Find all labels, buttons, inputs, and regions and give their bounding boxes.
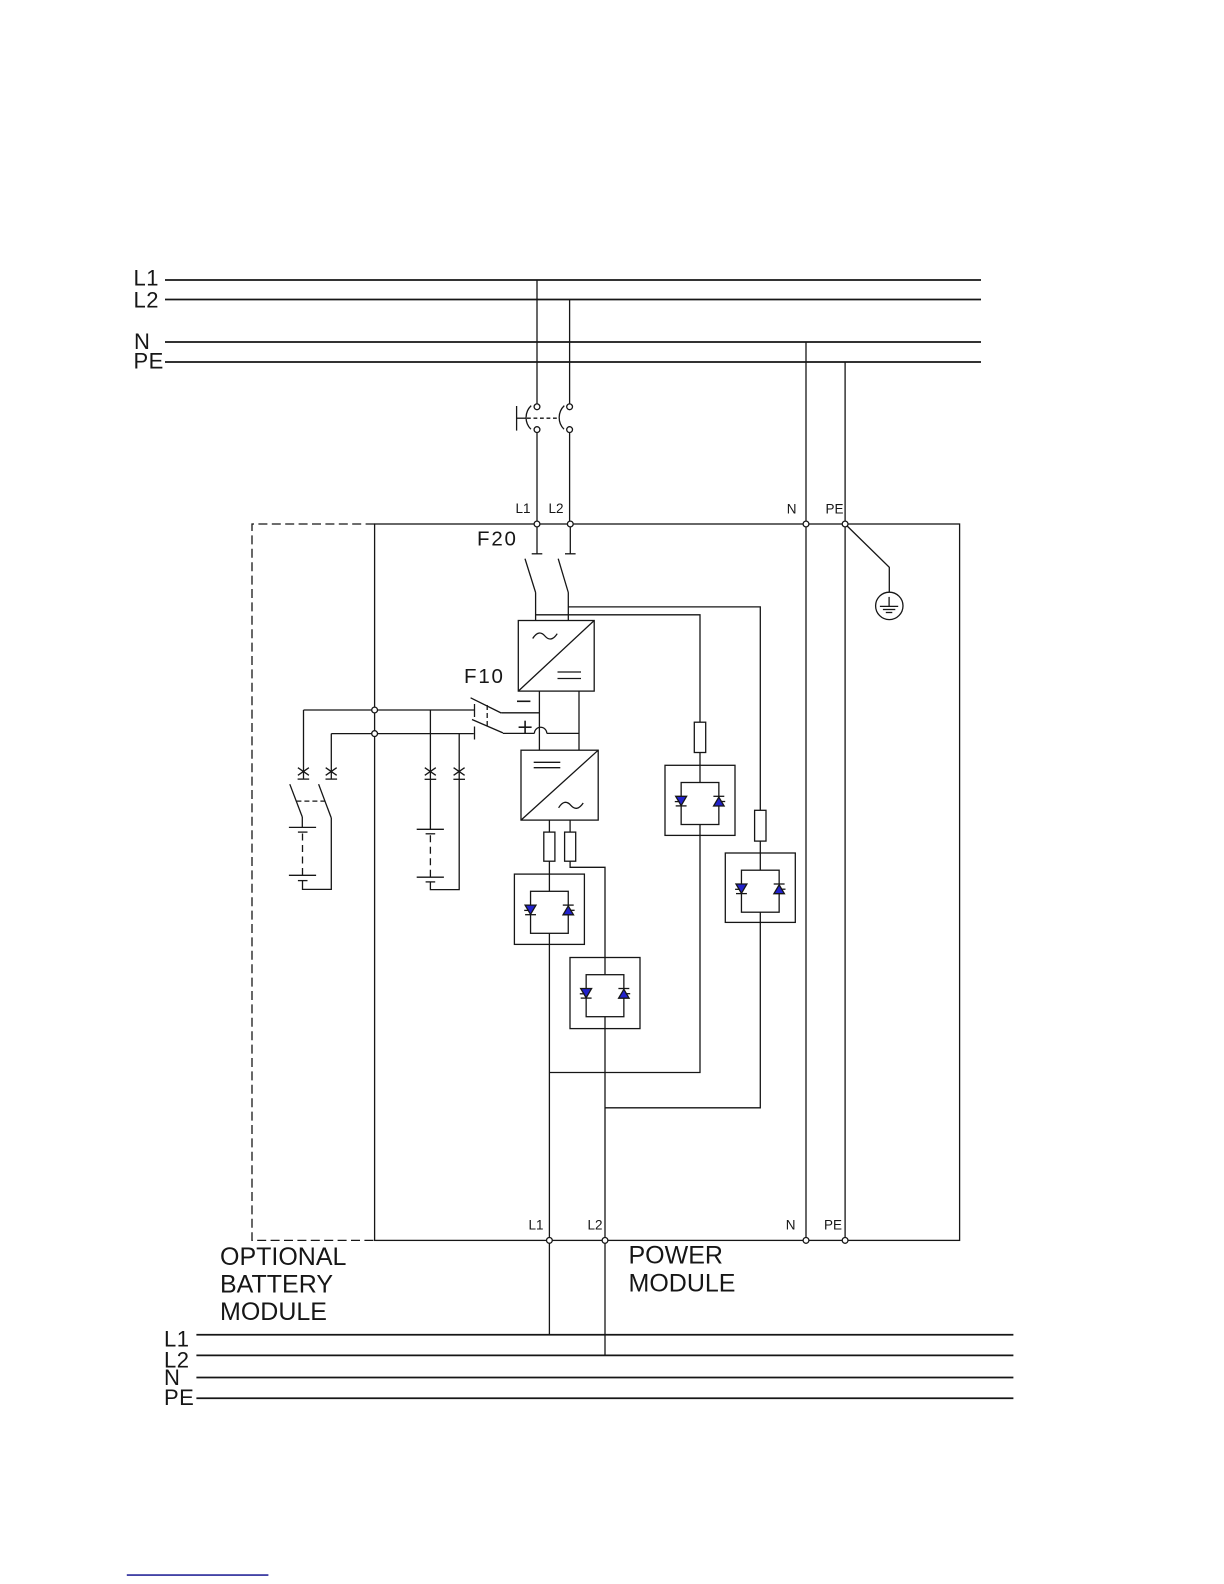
wire input bus L1: [165, 279, 981, 281]
pin label N (module bottom): [786, 1218, 796, 1233]
wire L1 drop to input switch: [536, 280, 538, 404]
wire N through module: [805, 342, 807, 1240]
battery B1 lower cell: [289, 875, 316, 880]
battery B2 (internal): [417, 829, 444, 834]
node label PE (input bus): [134, 349, 164, 374]
input switch Q1 pole 2 contacts: [567, 404, 573, 433]
pin label L1 (module top): [515, 501, 530, 516]
node L1 (module bottom terminal): [547, 1238, 553, 1244]
static switch S2 (inverter L2): [570, 958, 640, 1029]
wire DC plus bus: [331, 733, 474, 735]
svg-text:L2: L2: [548, 501, 563, 516]
label OPTIONAL BATTERY MODULE: [220, 1243, 347, 1326]
pin label PE (module top): [825, 502, 843, 517]
node L2 (module top terminal): [567, 521, 573, 527]
battery switch blade 1: [290, 784, 303, 817]
static switch S3 (bypass L1): [665, 765, 735, 835]
wire bypass branch from L1 pole: [536, 615, 700, 722]
footer link underline: [127, 1574, 269, 1576]
thyristor S3 left (down): [675, 796, 687, 806]
node minus bus battery tap: [372, 707, 378, 713]
wire input bus PE: [165, 361, 981, 363]
svg-text:N: N: [787, 502, 797, 517]
pin label N (module top): [787, 502, 797, 517]
wire battery B1 return: [303, 818, 332, 889]
node label PE (output bus): [164, 1385, 194, 1410]
wire minus bus to internal battery: [429, 710, 431, 829]
wire fuse to static switch S4: [759, 841, 761, 853]
static switch S4 (bypass L2): [725, 853, 795, 922]
optional battery module enclosure (dashed): [252, 524, 375, 1240]
disconnect F10 pole 2 (plus): [472, 720, 503, 740]
disconnect F10 pole 1 (minus): [471, 698, 540, 717]
wire F20 pole 1 to rectifier: [535, 593, 537, 621]
input switch Q1 pole 1 arc: [526, 406, 531, 430]
fuse-switch F20 pole 1: [525, 524, 542, 593]
thyristor S2 left (down): [580, 989, 592, 999]
node label N (output bus): [164, 1365, 180, 1390]
svg-text:POWER: POWER: [629, 1242, 723, 1270]
node plus bus battery tap: [372, 731, 378, 737]
static switch S1 (inverter L1): [514, 874, 584, 944]
label F20: [477, 528, 518, 551]
wire static switch S1 to output L1: [548, 944, 550, 1240]
inverter U2 (DC/AC converter): [521, 750, 598, 820]
node N (module bottom terminal): [803, 1238, 809, 1244]
node PE (module top terminal): [842, 521, 848, 527]
label plus: [519, 721, 532, 734]
wire input bus N: [165, 341, 981, 343]
svg-text:L2: L2: [134, 288, 159, 313]
fuse link X (internal battery plus): [453, 768, 465, 780]
wire plus bus to left battery: [330, 734, 332, 780]
node label L2 (output bus): [164, 1347, 189, 1372]
svg-text:PE: PE: [824, 1218, 842, 1233]
svg-text:F20: F20: [477, 528, 518, 551]
fuse bypass L1: [694, 722, 705, 752]
wire fuse to static switch S3: [699, 753, 701, 766]
node L1 (module top terminal): [534, 521, 540, 527]
wire output bus L2: [196, 1354, 1013, 1356]
node label L2 (input bus): [134, 288, 159, 313]
node L2 (module bottom terminal): [602, 1238, 608, 1244]
thyristor S1 left (down): [524, 905, 536, 915]
thyristor S4 right (up): [774, 884, 786, 894]
wire static switch S2 to output L2: [604, 1029, 606, 1241]
svg-text:N: N: [786, 1218, 796, 1233]
power module enclosure: [375, 524, 960, 1240]
pin label L2 (module bottom): [587, 1218, 602, 1233]
wire inverter output L2: [569, 820, 571, 832]
wire output L2 drop: [604, 1240, 606, 1355]
input switch Q1 mechanical link (dashed): [527, 417, 560, 419]
wire rectifier DC plus output: [578, 691, 580, 750]
wire PE to earth: [845, 524, 889, 592]
fuse link X (battery plus): [326, 768, 338, 779]
node PE (module bottom terminal): [842, 1238, 848, 1244]
wire output L1 drop: [548, 1240, 550, 1334]
node N (module top terminal): [803, 521, 809, 527]
fuse-switch F20 pole 2: [558, 524, 575, 593]
node label L1 (input bus): [134, 266, 159, 291]
fuse bypass L2: [755, 810, 766, 841]
wire bypass branch from L2 pole: [568, 607, 760, 810]
svg-text:L2: L2: [587, 1218, 602, 1233]
label minus: [517, 700, 530, 702]
F10 mechanical link (dashed): [486, 705, 488, 727]
thyristor S2 right (up): [618, 989, 630, 999]
fuse inverter L1: [544, 832, 555, 861]
fuse link X (battery minus): [298, 768, 310, 779]
battery B1 (optional module): [289, 817, 316, 832]
svg-text:PE: PE: [164, 1385, 194, 1410]
wire plus bus with hop over minus wire: [503, 727, 579, 733]
svg-text:PE: PE: [825, 502, 843, 517]
thyristor S4 left (down): [735, 884, 747, 894]
thyristor S3 right (up): [713, 796, 725, 806]
wire rectifier DC minus output: [538, 691, 540, 750]
wire output bus L1: [196, 1334, 1013, 1336]
wire minus bus to left battery: [303, 710, 305, 779]
battery B2 lower cell: [417, 877, 444, 882]
wire inverter output L1: [548, 820, 550, 832]
battery B1 stack (dashed): [302, 834, 304, 876]
fuse link X (internal battery minus): [425, 768, 437, 780]
wire DC minus bus: [304, 709, 475, 711]
battery B2 stack (dashed): [429, 835, 431, 877]
svg-text:OPTIONAL: OPTIONAL: [220, 1243, 347, 1271]
wire fuse to static switch 1: [548, 861, 550, 874]
node label N (input bus): [134, 329, 150, 354]
input switch Q1 actuator bar: [517, 406, 527, 431]
pin label L2 (module top): [548, 501, 563, 516]
battery switch link (dashed): [296, 800, 324, 802]
ground (protective earth symbol): [876, 592, 903, 619]
svg-text:L1: L1: [528, 1218, 543, 1233]
pin label L1 (module bottom): [528, 1218, 543, 1233]
wire output bus N: [196, 1377, 1013, 1379]
svg-text:BATTERY: BATTERY: [220, 1271, 333, 1299]
wire F20 pole 2 to rectifier: [567, 593, 569, 621]
pin label PE (module bottom): [824, 1218, 842, 1233]
wire PE through module: [844, 362, 846, 1240]
svg-text:L1: L1: [515, 501, 530, 516]
wire switch pole 1 to module terminal L1: [536, 433, 538, 525]
wire output bus PE: [196, 1397, 1013, 1399]
wire battery B2 return: [430, 734, 459, 890]
fuse inverter L2: [565, 832, 576, 861]
wire bypass S4 rejoin L2: [605, 922, 760, 1107]
wire bypass S3 rejoin L1: [549, 835, 700, 1072]
wire input bus L2: [165, 299, 981, 301]
wire fuse to static switch 2: [570, 861, 605, 957]
wire switch pole 2 to module terminal L2: [569, 433, 571, 525]
label POWER MODULE: [629, 1242, 736, 1298]
svg-text:MODULE: MODULE: [629, 1270, 736, 1298]
rectifier U1 (AC/DC converter): [518, 621, 594, 692]
thyristor S1 right (up): [563, 905, 575, 915]
node label L1 (output bus): [164, 1326, 189, 1351]
svg-text:MODULE: MODULE: [220, 1298, 327, 1326]
input switch Q1 pole 2 arc: [559, 406, 564, 430]
wire L2 drop to input switch: [569, 300, 571, 404]
label F10: [464, 665, 505, 688]
battery switch blade 2: [319, 784, 332, 818]
svg-text:F10: F10: [464, 665, 505, 688]
svg-text:PE: PE: [134, 349, 164, 374]
input switch Q1 pole 1 contacts: [534, 404, 540, 433]
